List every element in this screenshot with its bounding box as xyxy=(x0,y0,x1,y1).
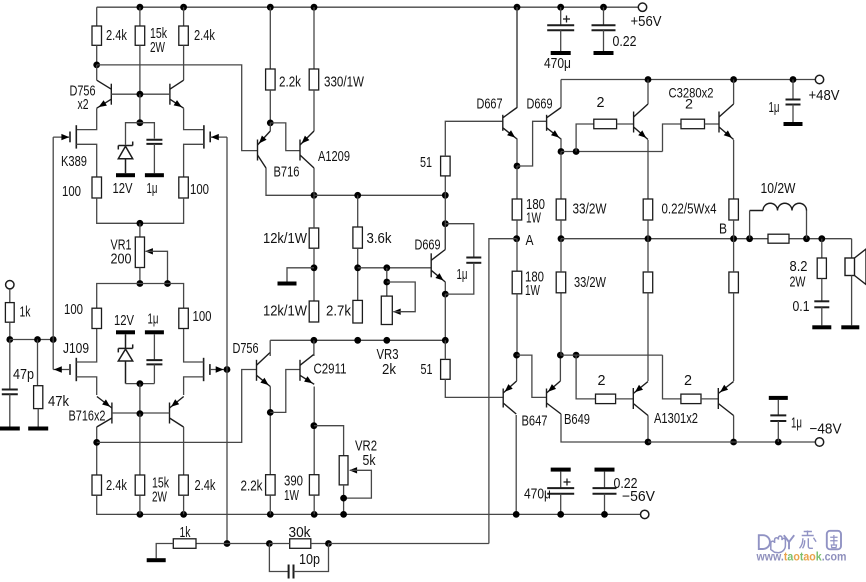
svg-text:1W: 1W xyxy=(525,283,540,299)
potentiometer VR3 2k xyxy=(381,296,392,324)
resistor 51 lower xyxy=(441,359,451,379)
ground speaker xyxy=(841,325,859,329)
watermark DIY logo xyxy=(759,531,841,553)
wire 180u top xyxy=(516,166,518,199)
svg-text:2W: 2W xyxy=(790,275,806,291)
svg-text:A1209: A1209 xyxy=(318,149,350,165)
resistor 2.2k lower xyxy=(266,475,276,495)
resistor 1k feedback xyxy=(173,539,196,549)
node A xyxy=(513,235,520,242)
node 0.22 top xyxy=(600,4,607,11)
svg-text:B647: B647 xyxy=(522,414,548,430)
wire 30k right stub xyxy=(311,543,329,545)
wire 1k to ground xyxy=(156,544,173,559)
wire VR2 wiper loop xyxy=(344,470,372,498)
wire 30k left stub xyxy=(269,543,289,545)
capacitor 1u lower-mid xyxy=(146,360,162,364)
svg-text:12k/1W: 12k/1W xyxy=(263,231,307,247)
node first stage output xyxy=(93,62,100,69)
resistor 15k 2W lower xyxy=(135,475,145,495)
wire 1u48 bottom xyxy=(792,105,794,123)
wire 1u lower top xyxy=(153,334,155,359)
resistor 180/1W upper xyxy=(512,199,522,220)
wire 470ul top xyxy=(560,472,562,488)
wire 12k u top xyxy=(313,195,315,228)
resistor 0.22 upper b xyxy=(729,199,739,220)
svg-text:200: 200 xyxy=(111,252,132,268)
capacitor 470u upper xyxy=(547,25,574,30)
wire 2.4k left to node xyxy=(96,45,98,65)
node B716u emitter xyxy=(267,120,274,127)
svg-text:3.6k: 3.6k xyxy=(367,231,393,247)
resistor 2 (driver 1) xyxy=(594,119,617,129)
svg-text:0.22: 0.22 xyxy=(614,476,638,492)
wire 470u top stub xyxy=(560,7,562,24)
node 12k mid ground tap xyxy=(311,264,318,271)
wire bias rail to D669 base xyxy=(358,267,432,269)
wiper arrow VR3 xyxy=(393,309,401,315)
wire 15k lower to bases xyxy=(139,414,141,475)
wire C3280 collector xyxy=(733,80,735,105)
wire output rail xyxy=(561,238,852,240)
svg-text:1μ: 1μ xyxy=(791,416,802,432)
svg-text:1k: 1k xyxy=(180,525,192,541)
wire inductor right leg xyxy=(806,211,808,239)
wire input node bus xyxy=(10,339,53,341)
wire to speaker xyxy=(851,239,853,258)
node B647 collector rail xyxy=(513,511,520,518)
wire D756m collector xyxy=(269,340,271,356)
svg-text:5k: 5k xyxy=(363,453,377,469)
ground 47p xyxy=(0,427,20,431)
wire C2911 collector xyxy=(313,340,315,356)
svg-text:+56V: +56V xyxy=(631,14,662,30)
wire low node to bases xyxy=(560,354,662,356)
wire 12k mid xyxy=(313,248,315,301)
wire 470u bottom xyxy=(560,30,562,51)
node VR3 bottom xyxy=(383,337,390,344)
wire +48V rail xyxy=(561,79,820,81)
node VR1 bottom xyxy=(137,280,144,287)
wire 2b to base xyxy=(705,123,720,125)
node 30k right xyxy=(325,540,332,547)
wire 1k feedback left xyxy=(196,543,227,545)
wire J109b drain down xyxy=(184,377,204,395)
terminal -56V xyxy=(641,510,649,518)
node 30k left xyxy=(266,540,273,547)
resistor 1k input xyxy=(5,303,14,323)
node 390 rail xyxy=(311,511,318,518)
svg-text:VR3: VR3 xyxy=(377,347,399,363)
wire J109b source up xyxy=(184,329,204,363)
wire VR1 bottom xyxy=(139,268,141,284)
wire 10p loop right xyxy=(294,544,329,572)
node 1u48 rail xyxy=(790,76,797,83)
node input net A xyxy=(6,336,13,343)
svg-text:C2911: C2911 xyxy=(314,362,347,378)
wire 1u-48 bottom xyxy=(777,421,779,442)
svg-text:1μ: 1μ xyxy=(147,181,158,197)
svg-text:B: B xyxy=(719,222,727,238)
wire 100 ul to tail xyxy=(97,198,184,223)
resistor 180/1W lower xyxy=(512,271,522,294)
wire VR3 wiper loop xyxy=(387,282,415,312)
wire to VR2 xyxy=(314,426,344,456)
node bias top xyxy=(354,264,361,271)
wire cap 1u bias bottom xyxy=(445,263,474,294)
jfet J109 left xyxy=(70,358,76,381)
wire fb to output xyxy=(329,543,489,545)
wire lower diff output to D756 base xyxy=(97,370,257,443)
node A1209 collector xyxy=(311,192,318,199)
wire B649 emitter up xyxy=(559,355,561,381)
wire drv1 base feed xyxy=(576,124,594,152)
transistor D667 xyxy=(503,108,517,140)
wire zobel top xyxy=(821,239,823,258)
node 2.7k bottom xyxy=(354,337,361,344)
transistor A1209 xyxy=(300,131,314,168)
node feedback bottom xyxy=(224,540,231,547)
node VR3 top tap xyxy=(383,264,390,271)
transistor A1301 (1st) xyxy=(633,382,648,416)
wire tail to VR1 xyxy=(139,223,141,237)
transistor C3280 (2nd) xyxy=(719,104,734,140)
svg-text:330/1W: 330/1W xyxy=(324,75,364,91)
svg-text:2: 2 xyxy=(597,95,605,111)
wire VAS rail upper xyxy=(314,194,445,196)
wire 2.4k right to D756b collector xyxy=(183,45,185,80)
terminal -48V xyxy=(815,438,823,446)
svg-text:2.4k: 2.4k xyxy=(195,478,217,494)
transistor B647 xyxy=(503,381,516,414)
wire 0.22cap top stub xyxy=(603,7,605,24)
resistor 100 lower-right xyxy=(179,308,189,328)
wire 0.22la top xyxy=(647,239,649,272)
svg-text:1μ: 1μ xyxy=(457,267,468,283)
wire B647 collector down xyxy=(515,415,517,514)
svg-text:51: 51 xyxy=(420,155,432,171)
node a1301b collector xyxy=(730,439,737,446)
node 2.2k lower rail xyxy=(267,511,274,518)
wire 1k to node xyxy=(9,322,11,339)
potentiometer VR2 5k xyxy=(339,456,348,485)
svg-text:D667: D667 xyxy=(477,97,503,113)
gate arrow K389 left xyxy=(61,134,69,140)
node 3.6k top xyxy=(354,192,361,199)
wire 2.2k top stub xyxy=(269,7,271,69)
wire K389b gate lead xyxy=(210,136,227,138)
node D756 bases xyxy=(137,91,144,98)
wire 2.2k bottom stub xyxy=(269,495,271,514)
ground 1u +48V xyxy=(784,122,803,126)
svg-text:100: 100 xyxy=(62,184,81,200)
wire +56V top rail xyxy=(97,6,643,8)
node output rail left xyxy=(558,235,565,242)
node 2.2k top xyxy=(267,4,274,11)
svg-text:−48V: −48V xyxy=(810,422,842,438)
node inductor left xyxy=(746,235,753,242)
wire a1301a emitter up xyxy=(647,293,649,381)
ground 1u upper xyxy=(145,173,164,177)
wire D669 collector up xyxy=(444,224,446,250)
resistor 330/1W xyxy=(309,69,319,90)
wire A1209 collector stub xyxy=(313,168,315,195)
capacitor 0.1 xyxy=(814,301,829,307)
ground 47k xyxy=(28,427,48,431)
wire 2.4k right top stub xyxy=(183,7,185,26)
wire D756 bases join xyxy=(111,93,170,95)
svg-text:2.4k: 2.4k xyxy=(194,28,216,44)
node VR3 wiper join xyxy=(383,279,390,286)
svg-text:1W: 1W xyxy=(284,488,299,504)
resistor 12k/1W lower xyxy=(309,301,319,322)
wire a1301b emitter up xyxy=(733,293,735,381)
wire 3.6k bottom xyxy=(357,248,359,300)
wire cap 1u bias top xyxy=(445,224,474,257)
gate arrow K389 right xyxy=(211,134,219,140)
wire speaker to gnd xyxy=(851,276,853,326)
wire D756b emitter to K389b drain xyxy=(184,108,204,129)
svg-text:2W: 2W xyxy=(152,490,167,506)
wire VR2 bottom xyxy=(343,485,345,515)
wire lower tail rail xyxy=(97,284,184,309)
transistor D756 (left of pair) xyxy=(97,80,112,108)
svg-text:12k/1W: 12k/1W xyxy=(263,304,307,320)
node drv base tap low xyxy=(573,352,580,359)
resistor 33/2W upper xyxy=(556,199,566,220)
wire zener top xyxy=(126,123,140,145)
wire A to fb column xyxy=(489,239,517,544)
node C3280 collector rail xyxy=(730,76,737,83)
node 0.22l rail xyxy=(601,511,608,518)
node D667 emitter xyxy=(514,163,521,170)
wire 470ul bottom xyxy=(560,494,562,515)
wire 180l bottom xyxy=(516,294,518,355)
wire VAS rail lower xyxy=(270,339,445,341)
wire 51l to B647 base xyxy=(445,379,503,397)
svg-text:A: A xyxy=(526,233,534,249)
node B716x2 bases xyxy=(137,410,144,417)
wire 47k bottom xyxy=(37,409,39,427)
gate arrow J109 left xyxy=(54,366,62,372)
wire 33u top xyxy=(560,152,562,200)
wire D756a emitter to K389a drain xyxy=(76,108,96,129)
capacitor 1u -48V xyxy=(770,415,786,421)
svg-text:47p: 47p xyxy=(13,367,34,383)
wiper arrow VR1 xyxy=(145,248,153,254)
ground 470u lower xyxy=(551,468,571,472)
svg-text:K389: K389 xyxy=(61,154,87,170)
wire feedback vertical xyxy=(226,137,228,543)
wire cap 1u top xyxy=(140,123,155,139)
wire 1u lower bottom xyxy=(153,364,155,383)
node VR2 bottom join xyxy=(340,495,347,502)
wire 0.22a bottom xyxy=(647,220,649,239)
wire 47k top xyxy=(37,340,39,386)
wire inductor left leg xyxy=(749,211,751,239)
node 470ul rail xyxy=(557,511,564,518)
svg-text:8.2: 8.2 xyxy=(790,259,808,275)
node D756m emitter tap xyxy=(267,409,274,416)
ground 1u -48V xyxy=(769,396,788,400)
resistor 2.4k lower-left xyxy=(92,475,102,495)
potentiometer VR1 200 xyxy=(135,237,144,268)
wire 33l top xyxy=(560,239,562,272)
wire a1301b collector down xyxy=(733,416,735,443)
transistor B716 (VAS) xyxy=(258,131,271,168)
wire 2.4k left top stub xyxy=(96,7,98,26)
wire 2la to base xyxy=(616,398,634,400)
wire B647e to B649 base xyxy=(517,355,547,397)
plus sign 470u upper xyxy=(563,16,570,23)
node 47k join xyxy=(34,336,41,343)
svg-text:2.2k: 2.2k xyxy=(279,75,302,91)
wire 33u bottom xyxy=(560,220,562,239)
svg-text:2.4k: 2.4k xyxy=(106,478,128,494)
transistor B649 xyxy=(547,381,562,414)
wire K389a source xyxy=(76,144,96,177)
svg-text:0.22: 0.22 xyxy=(613,34,637,50)
svg-text:J109: J109 xyxy=(63,341,89,357)
svg-text:47k: 47k xyxy=(48,394,70,410)
wire drv1 collector xyxy=(647,80,649,105)
svg-text:1μ: 1μ xyxy=(148,312,159,328)
wire 2a to base xyxy=(617,123,634,125)
resistor 2 (A1301 b) xyxy=(681,394,701,404)
wire 3.6k top stub xyxy=(357,195,359,227)
node zener/cap lower xyxy=(137,380,144,387)
svg-text:51: 51 xyxy=(421,362,433,378)
wire B716 emitter join xyxy=(269,123,271,131)
node inductor right xyxy=(803,235,810,242)
node drv base tap xyxy=(573,148,580,155)
wire D756m emitter xyxy=(269,387,271,475)
wire 180u bottom xyxy=(516,220,518,239)
wire 2.2k to emitters xyxy=(269,90,271,123)
wire D667 collector up xyxy=(516,7,518,107)
wire 2lb to base xyxy=(701,398,718,400)
svg-text:33/2W: 33/2W xyxy=(574,275,606,291)
wire zobel bottom xyxy=(821,307,823,325)
plus sign 470u lower xyxy=(564,479,571,486)
wire D667 emitter down xyxy=(516,139,518,167)
wire ground stub mid xyxy=(287,268,314,282)
svg-text:12V: 12V xyxy=(114,313,134,329)
node spine cap bottom xyxy=(442,291,449,298)
node J109b gate feedback xyxy=(224,366,231,373)
svg-text:0.22/5Wx4: 0.22/5Wx4 xyxy=(662,202,717,218)
gate arrow J109 right xyxy=(216,366,224,372)
node tail upper xyxy=(137,220,144,227)
node B647 emitter xyxy=(513,352,520,359)
jfet K389 left xyxy=(70,125,76,148)
speaker xyxy=(845,249,866,285)
node D669t emitter xyxy=(558,148,565,155)
resistor 15k 2W upper xyxy=(135,26,145,45)
wire first-stage output to B716 base xyxy=(97,65,258,151)
ground zener upper xyxy=(116,173,135,177)
zener diode 12V lower xyxy=(118,334,132,383)
resistor 390/1W xyxy=(309,475,319,495)
resistor 2 (C3280) xyxy=(681,119,705,129)
resistor 12k/1W upper xyxy=(309,228,319,248)
ground 1k xyxy=(147,558,166,562)
resistor 2.4k upper-left xyxy=(92,26,102,45)
resistor parallel 10/2W xyxy=(768,234,789,243)
wire J109b gate lead xyxy=(210,369,227,371)
wire K389b source xyxy=(184,144,204,177)
ground 470u upper xyxy=(551,51,571,55)
node input rail join xyxy=(50,336,57,343)
transistor C3280 (1st) xyxy=(634,104,648,140)
node drv collector rail xyxy=(645,76,652,83)
svg-text:100: 100 xyxy=(193,309,212,325)
resistor 2.4k lower-right xyxy=(179,475,189,495)
wire C2911 emitter xyxy=(313,387,315,475)
node C2911 collector rail xyxy=(311,337,318,344)
resistor 33/2W lower xyxy=(556,272,566,293)
wire K389a gate lead xyxy=(53,136,70,138)
svg-text:2.7k: 2.7k xyxy=(326,304,352,320)
wire VR1 wiper loop xyxy=(146,251,168,283)
wire to C2911 base xyxy=(270,370,300,413)
wire a1301b base feed xyxy=(663,355,681,399)
wire 51l top stub xyxy=(444,340,446,359)
node zener/cap top xyxy=(137,119,144,126)
wire bases to zener rail xyxy=(139,94,141,123)
resistor 51 upper xyxy=(441,156,451,176)
node 2.4k lr rail xyxy=(180,511,187,518)
capacitor 1u upper-mid xyxy=(146,140,162,144)
terminal +56V xyxy=(638,3,646,11)
svg-text:www.taotaok.com: www.taotaok.com xyxy=(756,550,847,564)
resistor 100 lower-left xyxy=(92,308,102,328)
node B649 emitter xyxy=(557,352,564,359)
wire B649 collector down xyxy=(561,414,648,442)
svg-text:30k: 30k xyxy=(289,525,312,541)
wire input rail vertical xyxy=(52,137,54,369)
resistor 2 (A1301 a) xyxy=(596,394,616,404)
ground 0.22 upper xyxy=(594,51,614,55)
node VR2 rail xyxy=(340,511,347,518)
jfet K389 right xyxy=(204,125,210,148)
transistor C2911 xyxy=(300,354,314,384)
node lower diff output xyxy=(93,439,100,446)
svg-text:2: 2 xyxy=(598,373,606,389)
wire a1301a collector down xyxy=(647,416,649,443)
svg-text:1W: 1W xyxy=(526,211,541,227)
node VR1 wiper join xyxy=(164,280,171,287)
node 2.4k right top xyxy=(180,4,187,11)
capacitor 47p xyxy=(2,390,18,395)
resistor 0.22 upper a xyxy=(643,199,653,220)
node 15k low rail xyxy=(137,511,144,518)
transistor B716x2 (left) xyxy=(97,397,112,428)
node 470u top xyxy=(557,4,564,11)
wire 51 up to D667 base xyxy=(445,121,503,156)
svg-text:1k: 1k xyxy=(20,305,32,321)
ground mid xyxy=(278,282,297,286)
resistor 2.2k upper xyxy=(266,69,276,90)
node 15k top xyxy=(137,4,144,11)
wire J109a gate lead xyxy=(53,369,70,371)
svg-text:A1301x2: A1301x2 xyxy=(654,411,698,427)
wire J109a drain down xyxy=(76,377,96,395)
node C2911 emitter tap xyxy=(311,422,318,429)
resistor 30k xyxy=(290,539,311,549)
wire C3280 emitter xyxy=(733,140,735,199)
wire -48V rail xyxy=(648,441,820,443)
